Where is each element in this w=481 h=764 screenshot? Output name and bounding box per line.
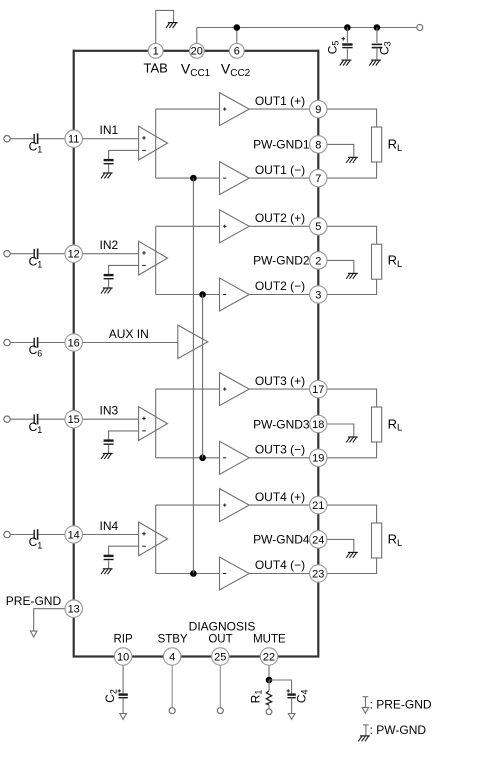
wire PW-GND2 stub [318,260,354,273]
resistor RL ch4 [372,523,382,558]
plus mark driver ch1 [223,108,226,111]
svg-text:OUT2 (−): OUT2 (−) [255,279,305,293]
capacitor feedback ch2 [104,275,114,279]
label OUT2 (-) [255,279,305,293]
capacitor feedback ch4 [104,556,114,560]
wire pin to amp ch3 [74,418,139,420]
label IN3 [100,404,119,418]
wire node to C4 [269,680,292,694]
wire aux terminal to C6 [10,342,33,344]
wire branch vertical ch4 [155,505,157,573]
capacitor C2 [118,689,128,698]
wire pin13 PRE-GND [34,609,74,631]
svg-text:IN4: IN4 [100,519,119,533]
wire C1 to pin ch3 [38,418,73,420]
svg-text:TAB: TAB [144,61,168,76]
wire pin to amp ch1 [74,138,139,140]
svg-text:1: 1 [153,46,159,58]
label RL ch2 [388,253,403,270]
wire PW-GND1 stub [318,144,354,157]
pin 24 pw-gnd [310,531,327,548]
svg-text:16: 16 [68,337,80,349]
pin 20 VCC1 [189,43,204,58]
op-amp input ch2 [139,241,168,275]
label R1 [248,690,263,704]
wire bus A (ch1-ch4) [192,178,194,573]
wire bus B (ch2-ch3) [202,295,204,458]
wire to minus driver ch2 [156,294,220,296]
label IN1 [100,123,119,137]
capacitor C6 [34,337,37,347]
wire OUT4 plus [249,504,318,506]
terminal input IN2 [4,251,10,257]
svg-text:OUT3 (−): OUT3 (−) [255,443,305,457]
svg-text:DIAGNOSIS: DIAGNOSIS [189,620,256,634]
wire VCC2 riser [236,28,238,51]
pin 11 input [65,130,82,147]
capacitor C3 [372,44,382,47]
op-amp input ch1 [139,126,168,160]
op-amp input ch4 [139,522,168,556]
node junction VCC2 [234,24,241,31]
ground PW-GND feedback ch1 [101,173,113,178]
terminal input IN4 [4,531,10,537]
wire branch vertical ch2 [155,226,157,294]
svg-text:OUT1 (+): OUT1 (+) [255,94,305,108]
wire pin to amp ch4 [74,534,139,536]
wire load to pin ch2 [318,279,376,294]
svg-text:6: 6 [234,46,240,58]
ground PW-GND pin ch4 [346,552,358,557]
plus mark input amp ch1 [142,136,146,140]
svg-text:OUT1 (−): OUT1 (−) [255,163,305,177]
wire OUT2 plus [249,225,318,227]
legend pw-gnd symbol [358,725,370,741]
legend label PW-GND [370,723,427,737]
wire branch vertical ch1 [155,109,157,178]
svg-text:: PW-GND: : PW-GND [370,723,427,737]
op-amp driver minus ch2 [220,278,250,311]
wire C3 bottom [376,48,378,60]
svg-text:PW-GND3: PW-GND3 [253,417,310,431]
pre-gnd arrow C2 [120,714,127,720]
wire pin to load ch1 [318,109,376,127]
svg-text:5: 5 [315,221,321,233]
pin 17 out+ [310,380,327,397]
label C1 ch3 [29,420,43,435]
minus mark driver ch4 [223,573,226,575]
svg-text:21: 21 [312,500,324,512]
IC package outline [74,51,319,657]
wire inverting input stub ch4 [109,546,139,555]
svg-text:OUT2 (+): OUT2 (+) [255,211,305,225]
wire PW-GND4 stub [318,539,354,552]
svg-text:7: 7 [315,173,321,185]
wire feedback cap to ground ch2 [108,279,110,287]
label OUT1 (+) [255,94,305,108]
ground PW-GND at C3 [369,60,381,65]
wire OUT4 minus [249,573,318,575]
op-amp driver minus ch4 [220,557,250,590]
wire inverting input stub ch3 [109,431,139,440]
label RL ch4 [388,532,403,549]
label RIP [114,633,134,645]
wire input terminal to C1 ch4 [10,534,33,536]
wire OUT3 minus [249,457,318,459]
svg-text:8: 8 [315,139,321,151]
label RL ch1 [388,137,403,154]
svg-text:3: 3 [315,289,321,301]
wire C1 to pin ch2 [38,253,73,255]
wire feedback cap to ground ch1 [108,164,110,172]
label OUT diagnosis [208,633,232,645]
svg-text:PW-GND4: PW-GND4 [253,533,310,547]
svg-text:PW-GND2: PW-GND2 [253,254,310,268]
pin 7 out- [310,169,327,186]
ground PW-GND pin ch1 [346,157,358,162]
svg-text:11: 11 [68,134,79,146]
pin 16 aux [65,334,82,351]
pin 13 pre-gnd [65,600,82,617]
svg-text:17: 17 [312,384,324,396]
svg-text:OUT4 (−): OUT4 (−) [255,558,305,572]
capacitor C1 input ch3 [34,414,37,424]
wire OUT1 minus [249,177,318,179]
pre-gnd arrow pin13 [30,631,37,637]
minus mark driver ch1 [223,177,226,179]
label PRE-GND [6,594,62,608]
svg-text:12: 12 [68,249,80,261]
svg-text:RIP: RIP [114,633,134,645]
svg-text:22: 22 [263,651,275,663]
label C1 ch1 [29,139,43,154]
pin 3 out- [310,286,327,303]
wire to plus driver ch1 [156,108,220,110]
ground PW-GND at TAB [166,23,178,28]
pin 8 pw-gnd [310,136,327,153]
label OUT4 (-) [255,558,305,572]
label STBY [158,633,188,645]
label C4 [294,689,309,703]
wire TAB to PW-GND [156,10,174,50]
wire load to pin ch4 [318,558,376,574]
label VCC2 [221,61,251,79]
svg-text:OUT4 (+): OUT4 (+) [255,490,305,504]
ground PW-GND pin ch3 [346,437,358,442]
label IN2 [100,238,119,252]
wire inverting input stub ch1 [109,150,139,159]
label OUT4 (+) [255,490,305,504]
op-amp driver plus ch4 [220,489,250,522]
node junction bus ch1 [190,175,197,182]
pin 6 VCC2 [229,43,244,58]
resistor RL ch3 [372,407,382,442]
terminal input IN1 [4,136,10,142]
wire VCC supply rail [197,27,417,29]
wire C1 to pin ch4 [38,534,73,536]
label PW-GND1 [253,138,310,152]
svg-text:24: 24 [312,534,324,546]
svg-text:23: 23 [312,568,324,580]
label PW-GND2 [253,254,310,268]
label RL ch3 [388,416,403,433]
wire to plus driver ch3 [156,388,220,390]
wire input terminal to C1 ch3 [10,418,33,420]
wire OUT1 plus [249,108,318,110]
wire OUT2 minus [249,294,318,296]
op-amp driver plus ch3 [220,373,250,406]
wire inverting input stub ch2 [109,265,139,274]
label C1 ch4 [29,535,43,550]
op-amp driver minus ch1 [220,162,250,195]
label OUT1 (-) [255,163,305,177]
label C6 [29,343,43,358]
svg-text:4: 4 [169,651,175,663]
wire load to pin ch3 [318,442,376,458]
legend pre-gnd symbol [362,697,369,714]
wire DIAG stub [219,657,221,708]
minus mark input amp ch3 [142,430,146,432]
label OUT3 (+) [255,374,305,388]
wire to plus driver ch4 [156,504,220,506]
wire OUT3 plus [249,388,318,390]
resistor R1 [266,680,271,709]
capacitor feedback ch1 [104,160,114,164]
minus mark input amp ch2 [142,264,146,266]
pin 25 diagnosis [212,648,229,665]
capacitor C1 input ch1 [34,134,37,144]
wire pin16 to aux amp [74,342,178,344]
ground PW-GND at C5 [340,60,352,65]
terminal R1 bottom [266,709,272,715]
svg-text:13: 13 [68,604,80,616]
node junction mute [266,677,273,684]
wire load to pin ch1 [318,162,376,178]
pin 12 input [65,245,82,262]
wire to minus driver ch1 [156,177,220,179]
wire to minus driver ch4 [156,573,220,575]
ground PW-GND feedback ch3 [101,454,113,459]
wire C2 to arrow [122,698,124,714]
terminal DIAGNOSIS OUT [217,708,223,714]
pin 10 RIP [114,648,131,665]
plus mark driver ch2 [223,225,226,228]
wire to minus driver ch3 [156,457,220,459]
pin 14 input [65,526,82,543]
pin 5 out+ [310,218,327,235]
capacitor C4 [287,689,296,698]
wire branch vertical ch3 [155,389,157,458]
plus mark input amp ch4 [142,532,146,536]
op-amp driver plus ch1 [220,93,250,126]
svg-text:AUX IN: AUX IN [109,327,149,341]
ground PW-GND feedback ch2 [101,288,113,293]
svg-text:IN2: IN2 [100,238,119,252]
minus mark driver ch2 [223,294,226,296]
svg-text:20: 20 [191,46,203,58]
terminal STBY [169,708,175,714]
wire STBY stub [171,657,173,708]
label C5 [325,41,340,55]
resistor RL ch1 [372,127,382,162]
wire C3 top [376,28,378,44]
label C3 [377,41,392,55]
pin 18 pw-gnd [310,415,327,432]
pin 21 out+ [310,496,327,513]
terminal input IN3 [4,416,10,422]
pin 4 STBY [164,648,181,665]
wire pin to load ch2 [318,226,376,244]
op-amp driver plus ch2 [220,210,250,243]
node junction bus ch3 [199,455,206,462]
label MUTE [253,633,286,645]
ground PW-GND pin ch2 [346,273,358,278]
wire MUTE to node [268,657,270,681]
svg-text:PW-GND1: PW-GND1 [253,138,310,152]
plus mark driver ch4 [223,504,226,507]
wire input terminal to C1 ch2 [10,253,33,255]
wire pin to amp ch2 [74,253,139,255]
wire PW-GND3 stub [318,424,354,437]
node junction C3 [374,24,381,31]
wire RIP to C2 [122,657,124,695]
svg-text:IN3: IN3 [100,404,119,418]
plus mark input amp ch3 [142,417,146,421]
label OUT2 (+) [255,211,305,225]
minus mark input amp ch4 [142,545,146,547]
label TAB [144,61,168,76]
label OUT3 (-) [255,443,305,457]
wire feedback cap to ground ch3 [108,445,110,453]
svg-text:9: 9 [315,104,321,116]
capacitor C5 [342,37,353,48]
wire VCC1 riser [196,28,198,51]
svg-text:: PRE-GND: : PRE-GND [370,698,432,712]
wire to plus driver ch2 [156,225,220,227]
pin 9 out+ [310,100,327,117]
capacitor feedback ch3 [104,441,114,445]
svg-text:25: 25 [214,651,226,663]
wire pin to load ch4 [318,505,376,523]
pin 2 pw-gnd [310,252,327,269]
capacitor C1 input ch2 [34,249,37,259]
resistor RL ch2 [372,244,382,279]
wire C5 top [346,28,348,43]
wire input terminal to C1 ch1 [10,138,33,140]
label PW-GND3 [253,417,310,431]
svg-text:MUTE: MUTE [253,633,286,645]
op-amp driver minus ch3 [220,441,250,474]
svg-text:19: 19 [312,453,324,465]
label DIAGNOSIS [189,620,256,634]
svg-text:OUT3 (+): OUT3 (+) [255,374,305,388]
op-amp AUX [178,325,208,359]
pin 19 out- [310,449,327,466]
svg-text:STBY: STBY [158,633,188,645]
pre-gnd arrow C4 [288,714,295,720]
terminal VCC supply [417,25,423,31]
label VCC1 [181,61,211,79]
node junction bus ch4 [190,570,197,577]
node junction C5 [344,24,351,31]
wire feedback cap to ground ch4 [108,560,110,568]
pin 15 input [65,411,82,428]
wire pin to load ch3 [318,389,376,407]
ground PW-GND feedback ch4 [101,569,113,574]
plus mark driver ch3 [223,388,226,391]
svg-text:15: 15 [68,414,80,426]
label IN4 [100,519,119,533]
svg-text:OUT: OUT [208,633,232,645]
svg-text:2: 2 [315,255,321,267]
svg-text:18: 18 [312,419,324,431]
svg-text:10: 10 [117,651,129,663]
pin 22 MUTE [260,648,277,665]
node junction bus ch2 [199,291,206,298]
op-amp input ch3 [139,407,168,441]
plus mark input amp ch2 [142,251,146,255]
wire C5 bottom [346,48,348,60]
minus mark driver ch3 [223,457,226,459]
svg-text:PRE-GND: PRE-GND [6,594,62,608]
pin 1 TAB [148,43,163,58]
capacitor C1 input ch4 [34,529,37,539]
label C2 [103,689,118,703]
label AUX IN [109,327,149,341]
wire C1 to pin ch1 [38,138,73,140]
svg-text:IN1: IN1 [100,123,119,137]
label C1 ch2 [29,254,43,269]
legend label PRE-GND [370,698,432,712]
svg-text:14: 14 [68,529,80,541]
minus mark input amp ch1 [142,149,146,151]
pin 23 out- [310,565,327,582]
wire C6 to pin 16 [38,342,73,344]
terminal AUX input [4,339,10,345]
label PW-GND4 [253,533,310,547]
wire C4 to arrow [291,698,293,714]
